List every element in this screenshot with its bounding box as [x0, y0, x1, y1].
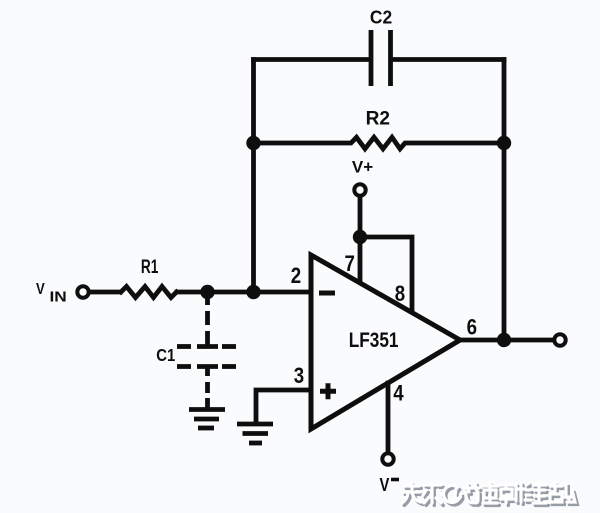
watermark	[402, 483, 577, 505]
svg-text:6: 6	[467, 316, 477, 340]
capacitor C2	[369, 30, 374, 86]
op-amp U1 LF351	[311, 255, 460, 429]
resistor R1	[121, 287, 177, 298]
wire V+ to pin 7	[358, 198, 363, 283]
svg-text:8: 8	[395, 283, 405, 307]
wire input to pin 2	[91, 290, 121, 295]
svg-text:LF351: LF351	[349, 330, 399, 353]
wire R1 to pin 2	[177, 290, 311, 295]
node junction input feedback	[246, 285, 260, 299]
terminal VIN	[77, 286, 88, 297]
ground (C1)	[189, 398, 225, 428]
node junction V+	[353, 230, 367, 244]
svg-text:C2: C2	[370, 7, 392, 28]
node junction R2/C2 right	[497, 136, 511, 150]
wire left vertical	[251, 60, 256, 293]
svg-text:V+: V+	[352, 158, 373, 177]
wire node to pin 8	[360, 237, 412, 311]
svg-text:C1: C1	[156, 346, 175, 365]
ground (pin 3)	[237, 424, 273, 443]
node junction output	[497, 333, 511, 347]
svg-text:V: V	[36, 281, 45, 298]
wire output	[460, 338, 554, 343]
wire top feedback left segment	[254, 57, 369, 62]
wire right vertical	[502, 60, 507, 341]
svg-text:R2: R2	[366, 108, 390, 129]
svg-text:IN: IN	[50, 289, 67, 306]
capacitor C1 (dashed)	[177, 299, 236, 393]
svg-text:V: V	[380, 474, 391, 495]
terminal output	[554, 334, 565, 345]
node junction input C1	[200, 285, 214, 299]
wire pin 4 to V-	[386, 383, 391, 452]
svg-text:4: 4	[393, 382, 404, 406]
op-amp plus input sign	[320, 383, 336, 399]
svg-text:2: 2	[291, 265, 301, 289]
node junction R2/C2 left	[246, 136, 260, 150]
wire top feedback right segment	[393, 57, 504, 62]
svg-text:7: 7	[344, 253, 354, 277]
svg-text:R1: R1	[141, 256, 158, 278]
terminal V-	[382, 453, 393, 464]
svg-text:3: 3	[294, 365, 304, 389]
terminal V+	[354, 184, 365, 195]
resistor R2	[254, 137, 505, 149]
wire pin 3 to ground	[256, 390, 311, 422]
op-amp minus input sign	[319, 291, 335, 296]
